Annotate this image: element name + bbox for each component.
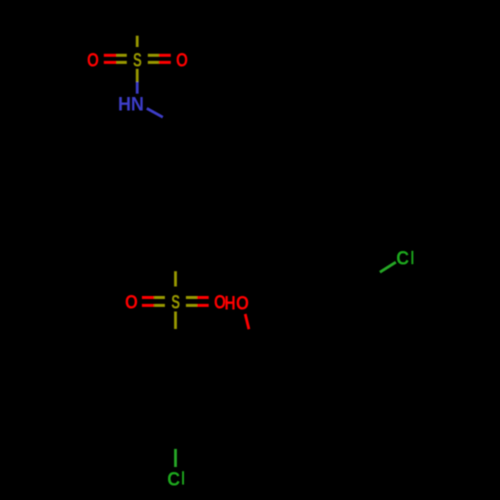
double bond S1=O left (O half)	[104, 54, 117, 57]
svg-text:O: O	[125, 292, 138, 313]
bond CH3-S1 (S half)	[136, 36, 139, 47]
svg-text:S: S	[133, 51, 142, 72]
bond C-Cl right (Cl half)	[380, 262, 396, 272]
svg-text:O: O	[176, 51, 188, 72]
svg-text:C: C	[167, 469, 180, 490]
svg-text:H: H	[224, 294, 235, 315]
bond S2-C lower (S half)	[174, 312, 177, 330]
double bond S1=O right (O half)	[159, 54, 171, 57]
bond C-Cl bottom (Cl half)	[174, 449, 177, 467]
double bond S2=O left (O half)	[142, 296, 154, 299]
double bond S1=O left (S half)	[116, 54, 126, 57]
svg-text:O: O	[87, 51, 99, 72]
svg-text:O: O	[236, 294, 249, 315]
bond S1-N (N half)	[136, 82, 139, 94]
double bond S1=O right (S half)	[148, 54, 159, 57]
bond O-C of OH (O half)	[245, 314, 249, 329]
bond C-S2 upper (S half)	[174, 271, 177, 286]
svg-text:S: S	[171, 292, 180, 313]
svg-text:C: C	[396, 249, 409, 270]
bond N-C (N half)	[147, 108, 163, 117]
double bond S2=O right (S half)	[186, 296, 197, 299]
svg-text:HN: HN	[118, 94, 144, 115]
double bond S2=O left (S half)	[154, 296, 165, 299]
double bond S2=O right (O half)	[197, 296, 209, 299]
bond S1-N (S half)	[136, 69, 139, 82]
